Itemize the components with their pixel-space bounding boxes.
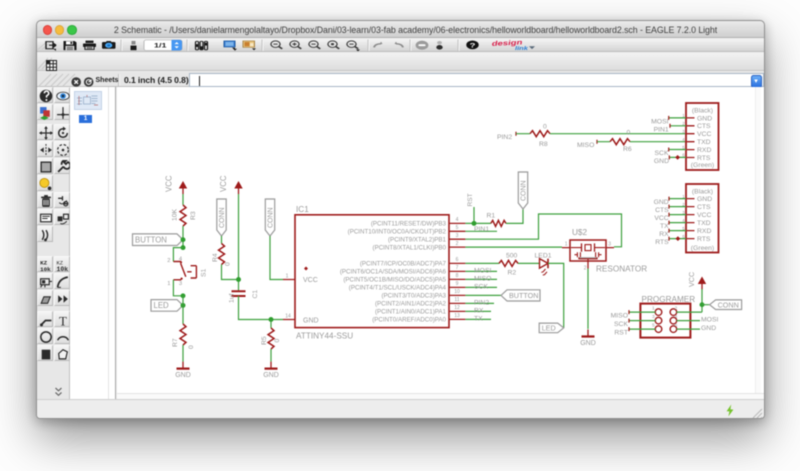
wire GND stub (654, 155, 686, 165)
resistor R8 (530, 124, 550, 148)
node RST (467, 193, 477, 226)
svg-text:0: 0 (627, 130, 631, 137)
wire XTAL1 (465, 246, 562, 248)
svg-text:T: T (59, 313, 67, 327)
connector FTDI (top) (682, 103, 718, 170)
svg-text:GND: GND (697, 115, 712, 122)
node GND label (programmer) (677, 325, 717, 332)
svg-text:GND: GND (580, 340, 596, 347)
svg-text:VCC: VCC (654, 215, 668, 222)
svg-text:3: 3 (652, 314, 655, 320)
ground (R5) (270, 349, 272, 362)
junction (181, 245, 186, 250)
svg-text:ATTINY44-SSU: ATTINY44-SSU (296, 332, 353, 341)
svg-text:PIN1: PIN1 (654, 126, 669, 133)
display icon blue (224, 41, 237, 51)
svg-text:PIN2: PIN2 (497, 134, 512, 141)
svg-text:2: 2 (675, 306, 678, 312)
power VCC (programmer) (687, 272, 706, 290)
svg-text:10k: 10k (56, 266, 68, 272)
1/1 spinner (144, 40, 182, 51)
node MOSI label (465, 267, 497, 274)
svg-text:BUTTON: BUTTON (509, 291, 538, 300)
sep (187, 40, 188, 51)
sep (121, 40, 122, 51)
svg-text:LED: LED (154, 301, 170, 310)
svg-text:R5: R5 (261, 336, 268, 345)
node MISO label (465, 275, 497, 282)
wire MISO (programmer) (611, 310, 656, 320)
svg-text:?: ? (470, 42, 476, 49)
svg-text:(PCINT10/INT0/OC0A/CKOUT)PB2: (PCINT10/INT0/OC0A/CKOUT)PB2 (348, 229, 447, 236)
save floppy (64, 41, 77, 50)
svg-text:0: 0 (274, 339, 281, 343)
svg-text:(Green): (Green) (691, 245, 714, 252)
wire (239, 296, 284, 320)
svg-text:RST: RST (467, 193, 474, 206)
svg-text:11: 11 (454, 297, 459, 303)
wire VCC stub (mid header) (654, 213, 686, 223)
svg-text:(PCINT7/ICP/OC0B/ADC7)PA7: (PCINT7/ICP/OC0B/ADC7)PA7 (360, 261, 447, 268)
junction (700, 302, 705, 307)
design link logo (491, 39, 535, 52)
layers icon (three bars) (196, 41, 208, 50)
node SCK label (465, 283, 497, 290)
svg-text:GND: GND (263, 372, 279, 379)
svg-text:500: 500 (506, 252, 518, 259)
svg-text:S1: S1 (201, 268, 208, 277)
svg-text:10: 10 (454, 289, 460, 295)
svg-text:(Black): (Black) (692, 108, 713, 115)
svg-text:VCC: VCC (219, 175, 228, 192)
svg-text:(PCINT8/XTAL1/CLKI)PB0: (PCINT8/XTAL1/CLKI)PB0 (373, 244, 447, 251)
svg-text:(Green): (Green) (691, 162, 714, 169)
svg-text:GND: GND (654, 158, 669, 165)
svg-text:RTS: RTS (697, 155, 711, 162)
svg-text:(PCINT3/T0/ADC3)PA3: (PCINT3/T0/ADC3)PA3 (381, 293, 446, 300)
node TX label (465, 315, 491, 322)
svg-text:RXD: RXD (697, 147, 711, 154)
svg-text:3: 3 (608, 241, 611, 247)
svg-text:3: 3 (456, 233, 459, 239)
svg-text:4: 4 (456, 217, 459, 223)
camera (102, 41, 116, 49)
wire (270, 320, 272, 329)
node BUTTON flag (mid) (465, 290, 540, 301)
image/library icon orange (243, 41, 256, 50)
wire (221, 236, 223, 244)
wire (270, 236, 283, 280)
wire (597, 141, 610, 143)
svg-text:1/1: 1/1 (154, 42, 167, 49)
svg-text:VCC: VCC (697, 131, 711, 138)
svg-text:SCK: SCK (474, 283, 488, 290)
wire LED net (465, 262, 499, 264)
node CONN flag 1 (217, 199, 226, 236)
capacitor C1 (229, 290, 260, 303)
svg-text:10K: 10K (172, 208, 179, 221)
node LED flag (mid) (539, 323, 564, 333)
sep (368, 40, 369, 51)
svg-text:R6: R6 (623, 146, 632, 153)
svg-text:TXD: TXD (697, 220, 711, 227)
wire GND stub (mid header) (654, 197, 686, 207)
svg-text:TX: TX (660, 223, 669, 230)
svg-text:GND: GND (303, 318, 319, 325)
resistor R5 (261, 328, 281, 349)
svg-text:(Black): (Black) (692, 189, 713, 196)
connector FTDI (middle) (682, 184, 718, 253)
svg-text:3: 3 (682, 129, 685, 134)
node RX label (465, 307, 491, 314)
wire (182, 194, 184, 205)
svg-text:GND: GND (697, 196, 712, 203)
svg-text:RTS: RTS (655, 239, 669, 246)
wire (238, 194, 240, 291)
wire (587, 269, 589, 330)
svg-text:4: 4 (179, 257, 183, 263)
svg-text:GND: GND (654, 199, 669, 206)
node CONN flag (right) (702, 300, 742, 310)
node PIN2 label (465, 299, 494, 306)
svg-text:6: 6 (456, 257, 459, 263)
wire SCK stub (655, 148, 686, 158)
svg-text:(PCINT1/AIN0/ADC1)PA1: (PCINT1/AIN0/ADC1)PA1 (375, 309, 447, 316)
svg-text:(PCINT4/T1/SCL/USCK/ADC4)PA4: (PCINT4/T1/SCL/USCK/ADC4)PA4 (349, 285, 447, 292)
wire CTS stub (mid header) (655, 205, 686, 215)
svg-text:R8: R8 (539, 141, 548, 148)
wire (518, 262, 539, 264)
board icon (131, 41, 137, 50)
stop icon (416, 41, 429, 50)
node PIN1 label (465, 226, 497, 233)
svg-text:PIN2: PIN2 (474, 299, 489, 306)
svg-text:LED: LED (542, 324, 556, 333)
svg-text:GND: GND (175, 372, 191, 379)
svg-text:VCC: VCC (165, 175, 174, 192)
wire (630, 141, 686, 143)
node BUTTON flag (133, 234, 186, 246)
wire PIN1 stub (654, 124, 686, 134)
svg-text:MOSI: MOSI (474, 267, 491, 274)
svg-text:CONN: CONN (521, 180, 528, 201)
svg-text:1uf: 1uf (229, 293, 236, 303)
node MISO label (top) (577, 140, 597, 149)
open/exit icon (46, 42, 56, 51)
svg-text:5: 5 (456, 225, 459, 231)
resistor R4 (212, 244, 232, 267)
svg-text:U$2: U$2 (572, 228, 587, 237)
svg-text:3: 3 (179, 281, 182, 287)
node CONN flag 2 (265, 199, 274, 236)
svg-text:GND: GND (701, 325, 716, 332)
svg-text:R4: R4 (212, 253, 219, 262)
svg-text:12: 12 (454, 305, 460, 311)
wire RESET net (465, 222, 490, 224)
resistor R1 (487, 213, 507, 227)
svg-text:(PCINT9/XTAL2)PB1: (PCINT9/XTAL2)PB1 (388, 236, 447, 243)
svg-text:0: 0 (188, 345, 195, 349)
node LED flag (151, 300, 185, 312)
svg-text:CONN: CONN (219, 207, 226, 228)
junction (181, 293, 186, 298)
svg-text:CTS: CTS (655, 207, 669, 214)
ground (R5) (263, 362, 279, 379)
wire (516, 133, 530, 135)
svg-text:MISO: MISO (611, 313, 628, 320)
wire SCK (programmer) (614, 319, 655, 329)
svg-text:VCC: VCC (697, 212, 711, 219)
junction (269, 317, 274, 322)
svg-text:2: 2 (456, 241, 459, 247)
wire RTS stub (mid header) (655, 236, 686, 246)
svg-text:MOSI: MOSI (701, 317, 718, 324)
svg-text:LED1: LED1 (535, 253, 552, 260)
sep (262, 40, 263, 51)
zoom icons (271, 41, 360, 51)
svg-text:8: 8 (456, 273, 459, 279)
svg-text:10k: 10k (40, 266, 51, 272)
connector PROGRAMER (640, 295, 695, 338)
LED LED1 (535, 253, 552, 276)
svg-text:R3: R3 (190, 211, 197, 220)
svg-text:(PCINT5/OC1B/MISO/DO/ADC5)PA5: (PCINT5/OC1B/MISO/DO/ADC5)PA5 (343, 277, 446, 284)
svg-text:MISO: MISO (474, 275, 491, 282)
svg-text:CTS: CTS (697, 123, 711, 130)
svg-text:RST: RST (614, 330, 628, 337)
wire (182, 296, 184, 324)
svg-text:TXD: TXD (697, 139, 711, 146)
printer (83, 41, 96, 50)
svg-text:0: 0 (225, 262, 232, 266)
wire (182, 345, 184, 362)
power VCC (button column) (165, 175, 188, 194)
svg-text:RTS: RTS (697, 236, 711, 243)
wire (548, 263, 564, 328)
svg-text:link: link (515, 46, 528, 52)
svg-text:13: 13 (454, 313, 460, 319)
svg-text:C1: C1 (252, 290, 259, 299)
wire RST (programmer) (614, 327, 655, 337)
op IC1 ATTINY44-SSU (283, 205, 465, 341)
two dots icon (436, 41, 442, 50)
wire (550, 133, 686, 135)
svg-text:SCK: SCK (614, 321, 628, 328)
wire XTAL2 over-route (465, 214, 621, 247)
wire RX stub (mid header) (659, 229, 686, 239)
resistor R2 (499, 252, 518, 276)
svg-text:MOSI: MOSI (651, 119, 668, 126)
undo / redo (374, 42, 403, 48)
svg-text:RX: RX (474, 307, 484, 314)
svg-text:2: 2 (584, 266, 587, 272)
svg-text:1: 1 (286, 273, 289, 279)
svg-text:CONN: CONN (268, 207, 275, 228)
node CONN flag 3 (518, 172, 527, 209)
wire MOSI stub (651, 116, 686, 126)
svg-text:5: 5 (652, 323, 655, 329)
svg-text:BUTTON: BUTTON (135, 236, 167, 245)
svg-text:0: 0 (543, 124, 547, 131)
wire (182, 226, 184, 248)
svg-text:1: 1 (565, 241, 568, 247)
sep (410, 40, 411, 51)
wire (677, 289, 703, 312)
svg-text:4: 4 (682, 137, 685, 142)
svg-text:7: 7 (456, 265, 459, 271)
help (466, 40, 478, 49)
svg-text:(PCINT2/AIN1/ADC2)PA2: (PCINT2/AIN1/ADC2)PA2 (375, 301, 447, 308)
svg-text:RXD: RXD (697, 228, 711, 235)
ground (button column) (175, 362, 191, 379)
sep (458, 40, 459, 51)
svg-text:R7: R7 (172, 338, 179, 347)
wire (222, 265, 239, 280)
svg-text:(PCINT11/RESET/DW)PB3: (PCINT11/RESET/DW)PB3 (371, 221, 447, 228)
junction (236, 277, 241, 282)
svg-text:6: 6 (675, 323, 678, 329)
svg-text:RESONATOR: RESONATOR (596, 265, 647, 274)
svg-text:2: 2 (167, 258, 170, 264)
svg-text:IC1: IC1 (296, 205, 309, 214)
svg-text:TX: TX (474, 315, 483, 322)
svg-text:VCC: VCC (687, 272, 696, 287)
power VCC (capacitor column) (219, 175, 243, 194)
svg-text:CONN: CONN (718, 301, 739, 310)
node MOSI label (programmer) (677, 317, 719, 324)
svg-text:CTS: CTS (697, 204, 711, 211)
svg-text:R2: R2 (508, 269, 517, 276)
svg-text:14: 14 (285, 313, 291, 319)
svg-text:SCK: SCK (655, 150, 669, 157)
ground (resonator) (580, 330, 596, 347)
svg-text:4: 4 (675, 314, 678, 320)
resistor R6 (610, 130, 632, 154)
svg-text:RX: RX (659, 231, 669, 238)
wire (506, 209, 523, 223)
svg-text:(PCINT0/AREF/ADC0)PA0: (PCINT0/AREF/ADC0)PA0 (372, 317, 446, 324)
node PIN2 label (top) (497, 132, 516, 141)
svg-text:MISO: MISO (577, 142, 594, 149)
crystal U$2 RESONATOR (562, 228, 647, 274)
resistor R7 (172, 324, 195, 349)
wire TX stub (mid header) (660, 221, 686, 231)
svg-text:1: 1 (652, 306, 655, 312)
svg-text:PIN1: PIN1 (474, 226, 489, 233)
svg-text:1: 1 (167, 281, 170, 287)
svg-text:R1: R1 (487, 213, 496, 220)
svg-text:(PCINT6/OC1A/SDA/MOSI/ADC6)PA6: (PCINT6/OC1A/SDA/MOSI/ADC6)PA6 (340, 269, 447, 276)
resistor R3 (172, 205, 198, 226)
svg-text:VCC: VCC (303, 277, 318, 284)
switch S1 (167, 248, 207, 296)
svg-text:9: 9 (456, 281, 459, 287)
